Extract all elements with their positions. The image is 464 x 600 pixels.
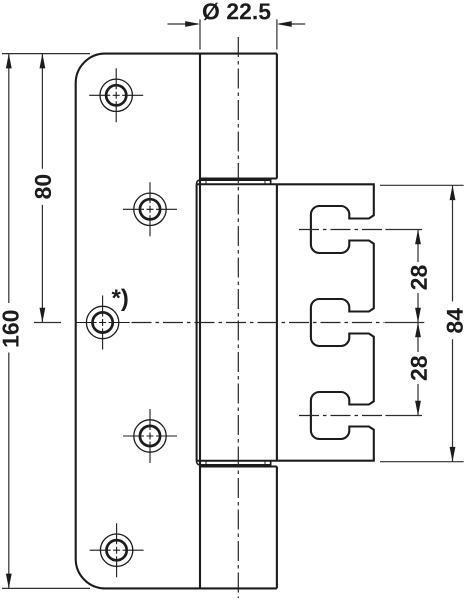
- label 84: [447, 308, 463, 333]
- lower knuckle top edge: [200, 465, 277, 467]
- dimension 80 line: [41, 54, 43, 323]
- screw hole 4: [123, 409, 177, 463]
- barrel left edge: [199, 54, 201, 589]
- dimension 160 line: [8, 54, 10, 589]
- bottom collar top edge: [197, 460, 277, 462]
- left extension lines: [2, 54, 90, 589]
- sleeve left edge: [196, 184, 198, 460]
- hinge leaf plate outline: [76, 54, 277, 589]
- diameter arrows: [185, 21, 292, 27]
- screw hole 5: [90, 523, 144, 577]
- top collar ticks: [206, 180, 265, 184]
- top collar step: [270, 179, 272, 185]
- label diameter 22.5: [203, 3, 271, 20]
- diameter dimension lines: [168, 23, 306, 25]
- right 28 extension segments: [385, 230, 425, 416]
- dimension 28 upper line: [417, 230, 419, 323]
- screw hole 3: [76, 296, 130, 350]
- label 28 lower: [411, 356, 427, 380]
- top collar bottom edge: [197, 183, 277, 185]
- tab 3 centerline: [299, 415, 385, 417]
- dimension 160 arrows: [6, 54, 12, 589]
- bottom collar washer: [197, 461, 271, 465]
- dimension 28 lower line: [417, 323, 419, 416]
- upper knuckle bottom edge: [200, 177, 277, 179]
- horizontal centerline: [132, 322, 385, 324]
- frame plate with three tab cutouts: [277, 184, 374, 460]
- dimension 84 line: [452, 185, 454, 461]
- dimension 80 arrows: [40, 54, 46, 323]
- screw hole 2: [123, 182, 177, 236]
- tab 1 centerline: [299, 229, 385, 231]
- label asterisk note: [112, 289, 128, 311]
- label 160: [2, 311, 18, 347]
- dimension 28 arrows: [415, 230, 421, 416]
- vertical axis centerline: [237, 37, 239, 598]
- label 80: [35, 175, 51, 199]
- top collar washer: [197, 180, 271, 184]
- label 28 upper: [411, 265, 427, 289]
- right 84 extension lines: [380, 185, 464, 461]
- dimension 84 arrows: [450, 185, 456, 461]
- top extension lines: [200, 19, 277, 49]
- barrel right edge upper segment: [276, 54, 278, 179]
- barrel right edge lower segment: [276, 467, 278, 589]
- bottom collar ticks: [206, 461, 265, 465]
- screw hole 1: [89, 68, 143, 122]
- bottom collar step: [270, 461, 272, 467]
